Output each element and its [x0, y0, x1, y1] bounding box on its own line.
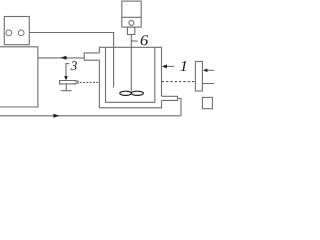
motor circle — [129, 21, 134, 26]
bottom drain line — [0, 115, 181, 117]
arrowhead into vessel right — [162, 64, 167, 68]
propeller right blade — [131, 91, 143, 95]
wire relay to heater — [29, 33, 113, 88]
vessel outer wall — [99, 47, 161, 108]
arrowhead into gauge — [203, 69, 207, 73]
indicator lamp left — [6, 30, 12, 36]
vessel inner wall — [106, 47, 155, 102]
lower right rect — [202, 97, 212, 108]
thermostat box — [0, 47, 38, 107]
stirrer shaft — [130, 35, 132, 92]
dashed line vessel to gauge — [162, 81, 196, 83]
label 6 — [141, 35, 149, 45]
label 1 — [180, 61, 186, 71]
drain pipe walls — [162, 96, 178, 100]
pipe line thermostat to vessel — [38, 57, 84, 59]
motor divider — [122, 16, 141, 18]
indicator lamp right — [18, 30, 24, 36]
motor neck — [127, 27, 134, 34]
arrowhead pipe left — [60, 56, 66, 60]
capsule stand — [61, 84, 72, 91]
supply pipe walls — [84, 53, 99, 60]
upper right rect — [195, 61, 202, 91]
propeller left blade — [120, 91, 132, 95]
dashed line capsule to vessel — [80, 81, 100, 83]
label 6 tick — [131, 40, 138, 42]
relay box — [4, 17, 29, 45]
label 3 bracket — [66, 64, 69, 77]
right arrow tail — [166, 65, 174, 67]
drain drop line — [178, 99, 182, 116]
label 3 — [71, 61, 77, 70]
line from upper rect to edge — [202, 83, 214, 85]
upper right arrow tail — [207, 69, 214, 71]
motor body — [122, 1, 141, 27]
thermometer capsule — [60, 81, 79, 84]
arrowhead down at thermometer — [64, 76, 68, 80]
arrowhead bottom right — [53, 114, 59, 118]
